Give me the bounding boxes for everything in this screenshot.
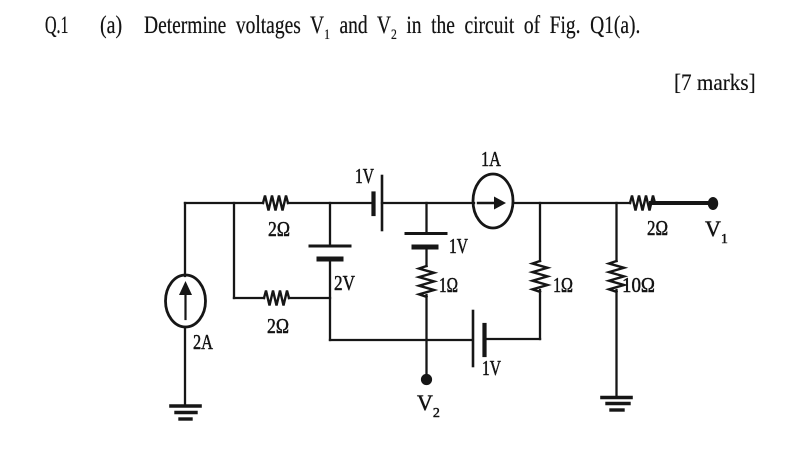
svg-text:2A: 2A (193, 330, 214, 354)
wire bottom-left horizontal to battery 1V bottom (330, 339, 472, 341)
marks (674, 72, 756, 96)
wire lower-left to resistor (234, 297, 264, 299)
battery 2V short plate (319, 257, 341, 262)
svg-text:V1: V1 (705, 216, 728, 247)
wire middle branch between battery and resistor (425, 249, 427, 266)
node V2 dot (421, 374, 432, 385)
svg-text:10Ω: 10Ω (622, 273, 655, 297)
question number (45, 13, 69, 38)
battery 1V bottom long plate (472, 311, 475, 366)
svg-text:1V: 1V (355, 164, 374, 188)
battery 1V top short plate (371, 194, 375, 215)
svg-text:2Ω: 2Ω (268, 217, 290, 241)
svg-text:1A: 1A (481, 147, 502, 171)
svg-text:1Ω: 1Ω (439, 273, 458, 297)
resistor 2ohm lower-left (264, 291, 289, 306)
wire 2V branch vertical upper (329, 203, 331, 245)
resistor 2ohm top-right (630, 196, 655, 211)
wire right 1ohm branch vertical upper (539, 203, 541, 261)
battery 1V bottom short plate (482, 325, 486, 355)
wire top between battery and current source 1A (382, 202, 474, 204)
wire below 2A to ground (184, 327, 186, 405)
wire second vertical from top node down (233, 203, 235, 298)
wire top between 1A and resistor 2ohm right (513, 202, 630, 204)
wire top between resistor and battery 1V top (288, 202, 373, 204)
resistor 1ohm right (533, 261, 548, 292)
svg-text:2V: 2V (334, 271, 355, 295)
battery 1V top long plate (381, 176, 384, 230)
resistor 10ohm (609, 261, 624, 292)
ground left (171, 404, 200, 408)
wire bottom-right horizontal from battery to right branch (485, 338, 540, 340)
part label (a) (100, 13, 122, 38)
wire middle branch vertical upper (425, 203, 427, 233)
wire left vertical from node A down to current source 2A (184, 203, 186, 276)
svg-text:2Ω: 2Ω (647, 216, 668, 240)
wire right 1ohm branch vertical lower (539, 290, 541, 339)
ground right (602, 396, 631, 400)
battery 2V long plate (310, 245, 350, 248)
wire top node A from left corner to resistor R-2ohm-top (185, 202, 263, 204)
question text (144, 13, 640, 43)
svg-text:2Ω: 2Ω (267, 314, 289, 338)
wire 10ohm branch vertical upper (615, 203, 617, 261)
resistor 2ohm top-left (263, 196, 288, 211)
resistor 1ohm middle (419, 266, 434, 297)
svg-text:1Ω: 1Ω (553, 273, 573, 297)
wire 2V branch vertical lower (329, 261, 331, 340)
battery 1V middle short plate (414, 245, 436, 250)
wire 10ohm branch vertical lower to ground (615, 290, 617, 396)
svg-text:V2: V2 (417, 390, 440, 421)
wire thick to node V1 (651, 201, 710, 205)
svg-text:1V: 1V (482, 356, 501, 380)
svg-text:1V: 1V (449, 234, 468, 258)
battery 1V middle long plate (406, 232, 446, 235)
current source 2A circle (166, 275, 206, 327)
current source 1A arrow (478, 202, 496, 204)
wire lower-left from resistor to 2V branch (289, 297, 330, 299)
node V1 dot (708, 197, 718, 210)
current source 2A arrow (184, 293, 186, 319)
current source 1A circle (473, 174, 513, 228)
wire middle branch from resistor through bottom wire to node V2 (425, 295, 427, 376)
